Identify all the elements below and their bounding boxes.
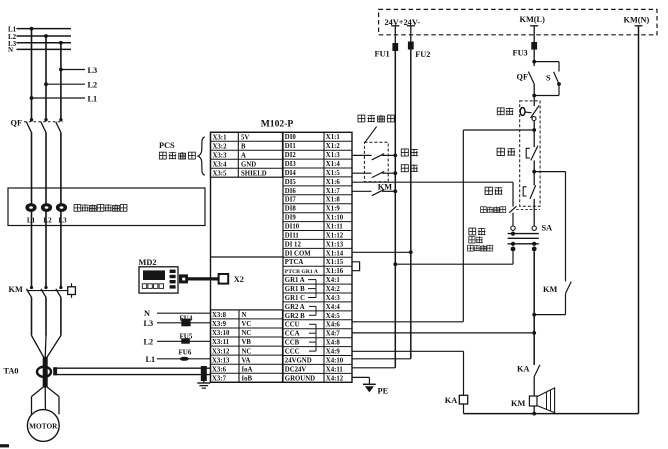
- svg-text:CCA: CCA: [285, 331, 300, 338]
- svg-text:GND: GND: [241, 161, 256, 168]
- wire to CCU riser: [463, 129, 534, 131]
- wire phase B mid: [45, 132, 47, 287]
- wire DI4 X1:5: [352, 172, 372, 174]
- svg-text:X4:8: X4:8: [326, 340, 341, 347]
- wire CCC from module: [352, 350, 464, 352]
- wire DI2 X1:3: [352, 154, 372, 156]
- fuse FU3: [531, 42, 537, 50]
- wire SA to 24V+: [395, 263, 513, 265]
- switch QF aux arm: [528, 72, 534, 84]
- svg-text:KA: KA: [517, 364, 529, 373]
- wire QF down: [533, 84, 535, 106]
- wire converge C: [47, 336, 61, 358]
- svg-text:TA0: TA0: [4, 366, 19, 375]
- svg-text:IoB: IoB: [242, 375, 253, 382]
- svg-text:X1:16: X1:16: [326, 268, 344, 275]
- svg-text:X1:6: X1:6: [326, 179, 341, 186]
- svg-text:DI COM: DI COM: [285, 250, 311, 257]
- svg-text:X3:13: X3:13: [212, 357, 230, 364]
- wire 24V+ upper: [394, 26, 396, 43]
- svg-text:X1:11: X1:11: [326, 224, 344, 231]
- svg-text:KM: KM: [378, 183, 392, 192]
- svg-text:FU6: FU6: [179, 348, 192, 356]
- relay KA coil: [459, 395, 467, 404]
- wire 24V+ tick: [391, 25, 399, 27]
- wire diverge A: [32, 386, 45, 397]
- breaker QF contact arm: [30, 118, 33, 121]
- svg-text:X1:10: X1:10: [326, 215, 344, 222]
- svg-text:5V: 5V: [241, 134, 249, 141]
- svg-text:SA: SA: [542, 223, 553, 232]
- wire KM seal branch bottom: [534, 314, 565, 316]
- button stop arm: [531, 146, 538, 161]
- svg-text:X1:9: X1:9: [326, 206, 341, 213]
- svg-text:L1: L1: [88, 94, 98, 103]
- svg-text:X4:7: X4:7: [326, 331, 341, 338]
- svg-text:N: N: [242, 312, 247, 319]
- svg-text:DI4: DI4: [285, 170, 297, 177]
- svg-text:FU3: FU3: [513, 48, 528, 57]
- wire L2 stub: [46, 83, 85, 85]
- wire bottom rail: [464, 413, 639, 415]
- svg-text:IoA: IoA: [242, 366, 253, 373]
- svg-text:X1:8: X1:8: [326, 197, 341, 204]
- CT winding oval: [41, 203, 52, 212]
- svg-text:GR2 A: GR2 A: [285, 304, 305, 311]
- svg-text:X4:2: X4:2: [326, 286, 341, 293]
- svg-text:NC: NC: [242, 330, 252, 337]
- label start (qidong): [401, 149, 417, 157]
- fuse FU4: [181, 319, 190, 327]
- wire L3 stub: [61, 69, 85, 71]
- label stop (tingche): [401, 164, 417, 172]
- svg-text:PCS: PCS: [159, 141, 175, 150]
- wire motor C: [58, 397, 60, 415]
- contactor KM contact arm: [44, 286, 47, 289]
- external signal dashed box: [364, 142, 388, 182]
- wire phase A low: [31, 297, 33, 335]
- breaker QF contact arm: [59, 118, 62, 121]
- brace PCS: [198, 137, 205, 175]
- svg-text:X3:6: X3:6: [212, 366, 227, 373]
- breaker QF contact arm: [44, 118, 47, 121]
- svg-text:X3:8: X3:8: [212, 312, 227, 319]
- svg-text:DI0: DI0: [285, 134, 297, 141]
- svg-text:X4:3: X4:3: [326, 295, 341, 302]
- terminal table X3 bottom: [211, 310, 283, 383]
- wire L2 bus: [17, 35, 72, 37]
- terminal table X3 top: [211, 132, 283, 177]
- relay GR1 contact group: [308, 280, 316, 298]
- terminal block on IoB: [201, 366, 207, 381]
- wire L3 bus: [17, 42, 72, 44]
- svg-text:X1:15: X1:15: [326, 259, 344, 266]
- wire CCU riser: [462, 130, 464, 322]
- svg-text:FU2: FU2: [415, 50, 430, 59]
- svg-text:24VGND: 24VGND: [285, 357, 312, 364]
- svg-text:X3:3: X3:3: [213, 152, 228, 159]
- svg-text:VA: VA: [242, 357, 251, 364]
- svg-text:MOTOR: MOTOR: [29, 421, 58, 430]
- svg-text:X3:2: X3:2: [213, 143, 228, 150]
- wire KM(L) drop: [533, 26, 535, 42]
- wire phase C low: [60, 297, 62, 335]
- wire L1 bus: [17, 28, 72, 30]
- svg-text:DI7: DI7: [285, 197, 297, 204]
- label machine-side button 2: [467, 245, 492, 251]
- svg-text:VC: VC: [242, 321, 252, 328]
- label built-in current transformer: [74, 204, 127, 211]
- svg-text:X4:10: X4:10: [326, 357, 344, 364]
- svg-text:X3:12: X3:12: [212, 348, 230, 355]
- wire diverge B: [44, 386, 46, 410]
- wire 24V- upper: [410, 26, 412, 42]
- svg-text:DI1: DI1: [285, 143, 297, 150]
- wire X1:6 drop to local contact: [512, 182, 514, 206]
- svg-text:X1:1: X1:1: [326, 134, 341, 141]
- contactor KM contact arm: [59, 286, 62, 289]
- svg-text:DI11: DI11: [285, 232, 300, 239]
- fuse FU6: [180, 357, 189, 361]
- svg-text:N: N: [144, 309, 150, 318]
- wire 24V+ rail: [394, 51, 396, 368]
- svg-text:L3: L3: [88, 66, 98, 75]
- svg-text:QF: QF: [11, 119, 23, 128]
- svg-text:N: N: [8, 46, 13, 54]
- relay CC contact group: [309, 324, 316, 351]
- svg-text:DI 12: DI 12: [285, 241, 302, 248]
- wire phase bundle bar: [43, 357, 48, 388]
- wire DI6 X1:7: [352, 190, 372, 192]
- svg-text:FU4: FU4: [180, 314, 193, 322]
- svg-text:X3:10: X3:10: [212, 330, 230, 337]
- svg-text:X3:4: X3:4: [213, 161, 228, 168]
- label emergency stop (jinting): [497, 108, 513, 115]
- svg-text:NC: NC: [242, 348, 252, 355]
- label local (bendi): [469, 228, 486, 235]
- wire phase C drop: [60, 43, 62, 119]
- contactor KM aux arm: [372, 190, 384, 196]
- wire KM(N) tick: [635, 25, 643, 27]
- wire S branch top: [534, 61, 559, 63]
- svg-text:X2: X2: [234, 275, 244, 284]
- svg-text:PE: PE: [378, 387, 389, 396]
- svg-text:CCC: CCC: [285, 349, 300, 356]
- wire 24V- rail: [410, 50, 412, 359]
- connector X2: [219, 274, 229, 284]
- wire phase A drop: [31, 29, 33, 119]
- module internal divider: [282, 132, 284, 382]
- svg-text:X1:3: X1:3: [326, 152, 341, 159]
- svg-text:S: S: [546, 73, 551, 82]
- wire KM(L) tick: [530, 25, 538, 27]
- cable MD2 to X2: [179, 274, 188, 283]
- node L1 tap: [30, 27, 34, 31]
- node L3 branch: [59, 68, 63, 72]
- wire SA right rail: [533, 251, 535, 365]
- svg-text:VB: VB: [242, 339, 252, 346]
- leader external signal: [365, 126, 377, 142]
- wire CCC drop to KA: [463, 351, 465, 395]
- svg-text:X3:9: X3:9: [212, 321, 227, 328]
- svg-text:A: A: [241, 152, 246, 159]
- wire DI5 X1:6 to SA: [352, 181, 513, 183]
- svg-text:DI10: DI10: [285, 224, 300, 231]
- switch stop arm: [372, 171, 384, 177]
- button start actuator: [523, 187, 526, 196]
- svg-text:DI9: DI9: [285, 215, 297, 222]
- svg-text:L1: L1: [27, 216, 36, 224]
- CT winding oval: [56, 203, 67, 212]
- wire L1 stub: [32, 97, 86, 99]
- contact KA arm: [534, 365, 540, 377]
- svg-text:X4:4: X4:4: [326, 304, 341, 311]
- button emergency stop: [520, 108, 525, 116]
- svg-text:DI2: DI2: [285, 152, 297, 159]
- svg-text:DI3: DI3: [285, 161, 297, 168]
- button stop actuator: [526, 148, 530, 158]
- scan mark: [0, 444, 9, 447]
- fuse FU2: [408, 42, 414, 50]
- svg-text:DI8: DI8: [285, 206, 297, 213]
- svg-text:X1:7: X1:7: [326, 188, 341, 195]
- svg-text:X3:1: X3:1: [213, 134, 228, 141]
- svg-text:KM(L): KM(L): [520, 15, 546, 24]
- module M102-P outline: [211, 132, 353, 382]
- contact KM seal arm: [566, 282, 572, 294]
- node L3 tap: [59, 41, 63, 45]
- node L1 branch: [30, 96, 34, 100]
- terminal table DI/X1/X4: [283, 132, 352, 382]
- wire L1 to X3:13: [157, 358, 211, 360]
- breaker QF link dashed: [24, 121, 63, 123]
- switch S arm: [554, 72, 559, 84]
- wire KA to KM coil: [533, 377, 535, 396]
- wire estop down: [533, 121, 535, 147]
- label PCS comm port: [159, 152, 195, 159]
- svg-text:X4:11: X4:11: [326, 366, 344, 373]
- svg-text:X1:2: X1:2: [326, 143, 341, 150]
- label stop button (tingche): [497, 148, 515, 156]
- svg-text:KM: KM: [511, 399, 525, 408]
- svg-text:L3: L3: [58, 216, 67, 224]
- wire start to SA: [533, 199, 535, 226]
- wire converge B: [44, 336, 47, 358]
- jumper PTCA-PTCB: [352, 262, 360, 271]
- svg-text:GR1 C: GR1 C: [285, 295, 305, 302]
- svg-text:L2: L2: [88, 81, 98, 90]
- link local button dashed: [516, 209, 540, 211]
- svg-text:GR1 B: GR1 B: [285, 286, 305, 293]
- selector SA: [508, 226, 539, 244]
- fuse FU5: [181, 338, 190, 343]
- svg-text:CCB: CCB: [285, 340, 300, 347]
- current transformer box: [8, 188, 205, 226]
- wire KM seal branch riser: [565, 172, 567, 282]
- label start button (qidong): [485, 187, 502, 195]
- svg-text:L1: L1: [146, 355, 156, 364]
- svg-text:L2: L2: [43, 216, 52, 224]
- label remote (yaokong): [469, 236, 483, 243]
- wire phase C mid: [60, 132, 62, 287]
- wire KM(N) rail: [638, 26, 640, 414]
- wire KM seal branch top: [534, 171, 565, 173]
- svg-text:X1:14: X1:14: [326, 250, 344, 257]
- ground PE: [363, 383, 376, 385]
- contactor KM contact arm: [30, 286, 33, 289]
- svg-text:KA: KA: [445, 396, 457, 405]
- CT TA0 ring: [37, 367, 51, 377]
- wire converge A: [32, 336, 44, 358]
- supply terminal dashed box: [379, 9, 657, 34]
- svg-text:PTCA: PTCA: [285, 259, 304, 266]
- fuse FU1: [392, 43, 398, 51]
- wire L2 to X3:11: [157, 340, 211, 342]
- svg-text:GR1 A: GR1 A: [285, 277, 305, 284]
- wire phase A mid: [31, 132, 33, 287]
- svg-text:DI6: DI6: [285, 188, 297, 195]
- wire GROUND to PE: [352, 376, 369, 378]
- wire FU3 to QF: [533, 50, 535, 66]
- wire local contact to SA: [512, 213, 514, 226]
- svg-text:B: B: [241, 143, 246, 150]
- svg-text:M102-P: M102-P: [261, 119, 294, 130]
- svg-text:FU5: FU5: [180, 333, 193, 341]
- svg-text:CCU: CCU: [285, 322, 300, 329]
- contactor KM coil: [529, 396, 537, 406]
- wire TA0 IoA: [57, 367, 211, 369]
- wire TA0 IoB: [57, 374, 211, 376]
- svg-text:GROUND: GROUND: [285, 375, 315, 382]
- switch start arm: [372, 154, 384, 160]
- wire S branch bottom: [558, 84, 560, 96]
- motor M circle: [27, 410, 59, 442]
- switch local button arm: [509, 206, 516, 213]
- svg-text:L2: L2: [144, 337, 154, 346]
- svg-text:PTCB GR1 A: PTCB GR1 A: [285, 269, 319, 275]
- CT TA0 terminal: [53, 367, 57, 375]
- wire phase B drop: [45, 36, 47, 119]
- svg-text:X4:12: X4:12: [326, 375, 344, 382]
- wire CCU to module: [352, 321, 463, 323]
- svg-text:QF: QF: [517, 73, 529, 82]
- svg-text:DI5: DI5: [285, 179, 297, 186]
- svg-text:FU1: FU1: [375, 50, 390, 59]
- svg-text:24V+24V-: 24V+24V-: [385, 18, 421, 27]
- relay GR2 contact group: [309, 306, 316, 315]
- wire N bus: [17, 48, 72, 50]
- svg-text:GR2 B: GR2 B: [285, 313, 305, 320]
- wire diverge C: [46, 386, 59, 397]
- svg-text:MD2: MD2: [139, 258, 157, 267]
- svg-text:KM: KM: [9, 285, 23, 294]
- svg-text:KM: KM: [543, 285, 557, 294]
- node L2 tap: [44, 34, 48, 38]
- display MD2 body: [139, 267, 178, 293]
- wire motor A: [31, 397, 33, 415]
- wire CCA to rail: [352, 332, 534, 334]
- ground (TA0 secondary): [203, 381, 205, 383]
- button start arm: [530, 185, 536, 199]
- label external signal: [358, 115, 394, 122]
- wire 24VGND to module: [352, 358, 411, 360]
- svg-text:SHIELD: SHIELD: [241, 170, 267, 177]
- svg-text:X4:1: X4:1: [326, 277, 341, 284]
- svg-text:X3:5: X3:5: [213, 170, 228, 177]
- wire phase B low: [45, 297, 47, 335]
- svg-text:X4:5: X4:5: [326, 313, 341, 320]
- svg-text:X1:5: X1:5: [326, 170, 341, 177]
- svg-text:X4:9: X4:9: [326, 349, 341, 356]
- button emergency stop arm: [531, 106, 539, 118]
- svg-text:X1:13: X1:13: [326, 241, 344, 248]
- wire N to X3:8: [157, 312, 211, 314]
- svg-text:DC24V: DC24V: [285, 366, 307, 373]
- node L2 branch: [44, 82, 48, 86]
- svg-text:X1:12: X1:12: [326, 232, 344, 239]
- svg-text:X3:11: X3:11: [212, 339, 230, 346]
- wire L3 to X3:9: [157, 322, 211, 324]
- CT winding oval: [25, 203, 36, 212]
- wire SA left down: [512, 251, 514, 264]
- contactor KM link: [27, 290, 68, 292]
- wire DI-COM to 24V-: [352, 251, 411, 253]
- wire 24V- tick: [407, 25, 415, 27]
- wire stop down: [533, 160, 535, 185]
- wire DC24V to module: [352, 367, 395, 369]
- svg-text:X3:7: X3:7: [212, 375, 227, 382]
- svg-text:X4:6: X4:6: [326, 322, 341, 329]
- contactor KM operator box: [68, 287, 76, 295]
- svg-text:L3: L3: [144, 319, 154, 328]
- svg-text:X1:4: X1:4: [326, 161, 341, 168]
- svg-text:KM(N): KM(N): [624, 15, 650, 24]
- label machine-side button 1: [480, 207, 505, 213]
- dashed box stop/start buttons: [520, 101, 540, 206]
